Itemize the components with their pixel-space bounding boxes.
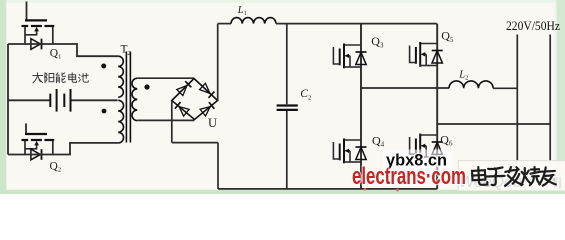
svg-text:U: U [208, 116, 217, 130]
svg-text:¶|: ¶| [552, 175, 562, 189]
svg-text:220V/50Hz: 220V/50Hz [506, 18, 560, 33]
svg-text:electrans·com: electrans·com [352, 163, 466, 190]
